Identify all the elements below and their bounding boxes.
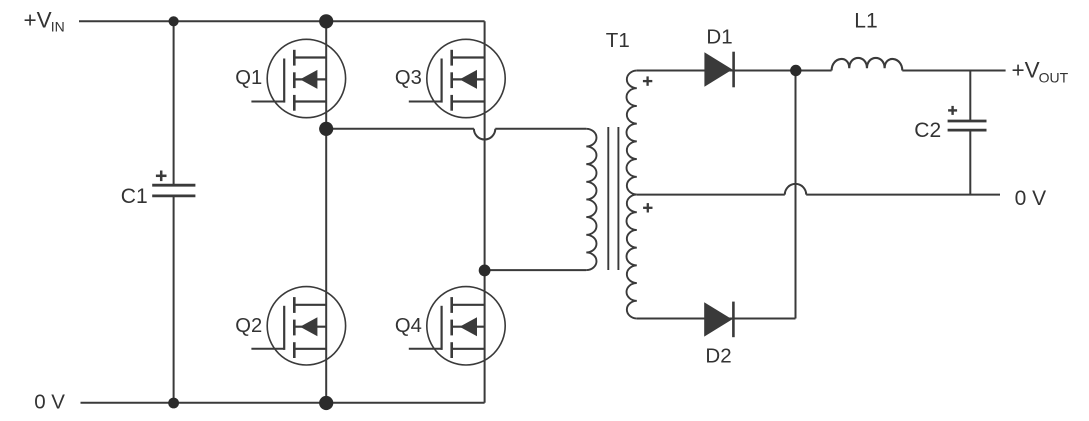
svg-text:C1: C1 [121, 185, 148, 208]
svg-text:OUT: OUT [1039, 70, 1069, 86]
svg-text:T1: T1 [606, 29, 630, 52]
svg-text:Q2: Q2 [235, 315, 262, 337]
svg-text:D2: D2 [705, 345, 731, 368]
svg-text:L1: L1 [854, 9, 877, 32]
svg-text:0 V: 0 V [34, 390, 65, 413]
svg-text:D1: D1 [706, 26, 732, 49]
svg-text:Q3: Q3 [395, 67, 422, 89]
svg-text:+V: +V [24, 8, 52, 33]
svg-text:C2: C2 [914, 119, 941, 142]
svg-text:+V: +V [1012, 58, 1040, 83]
svg-text:IN: IN [51, 19, 65, 35]
svg-text:Q4: Q4 [395, 315, 422, 337]
svg-text:Q1: Q1 [235, 67, 262, 89]
svg-text:0 V: 0 V [1015, 187, 1047, 210]
